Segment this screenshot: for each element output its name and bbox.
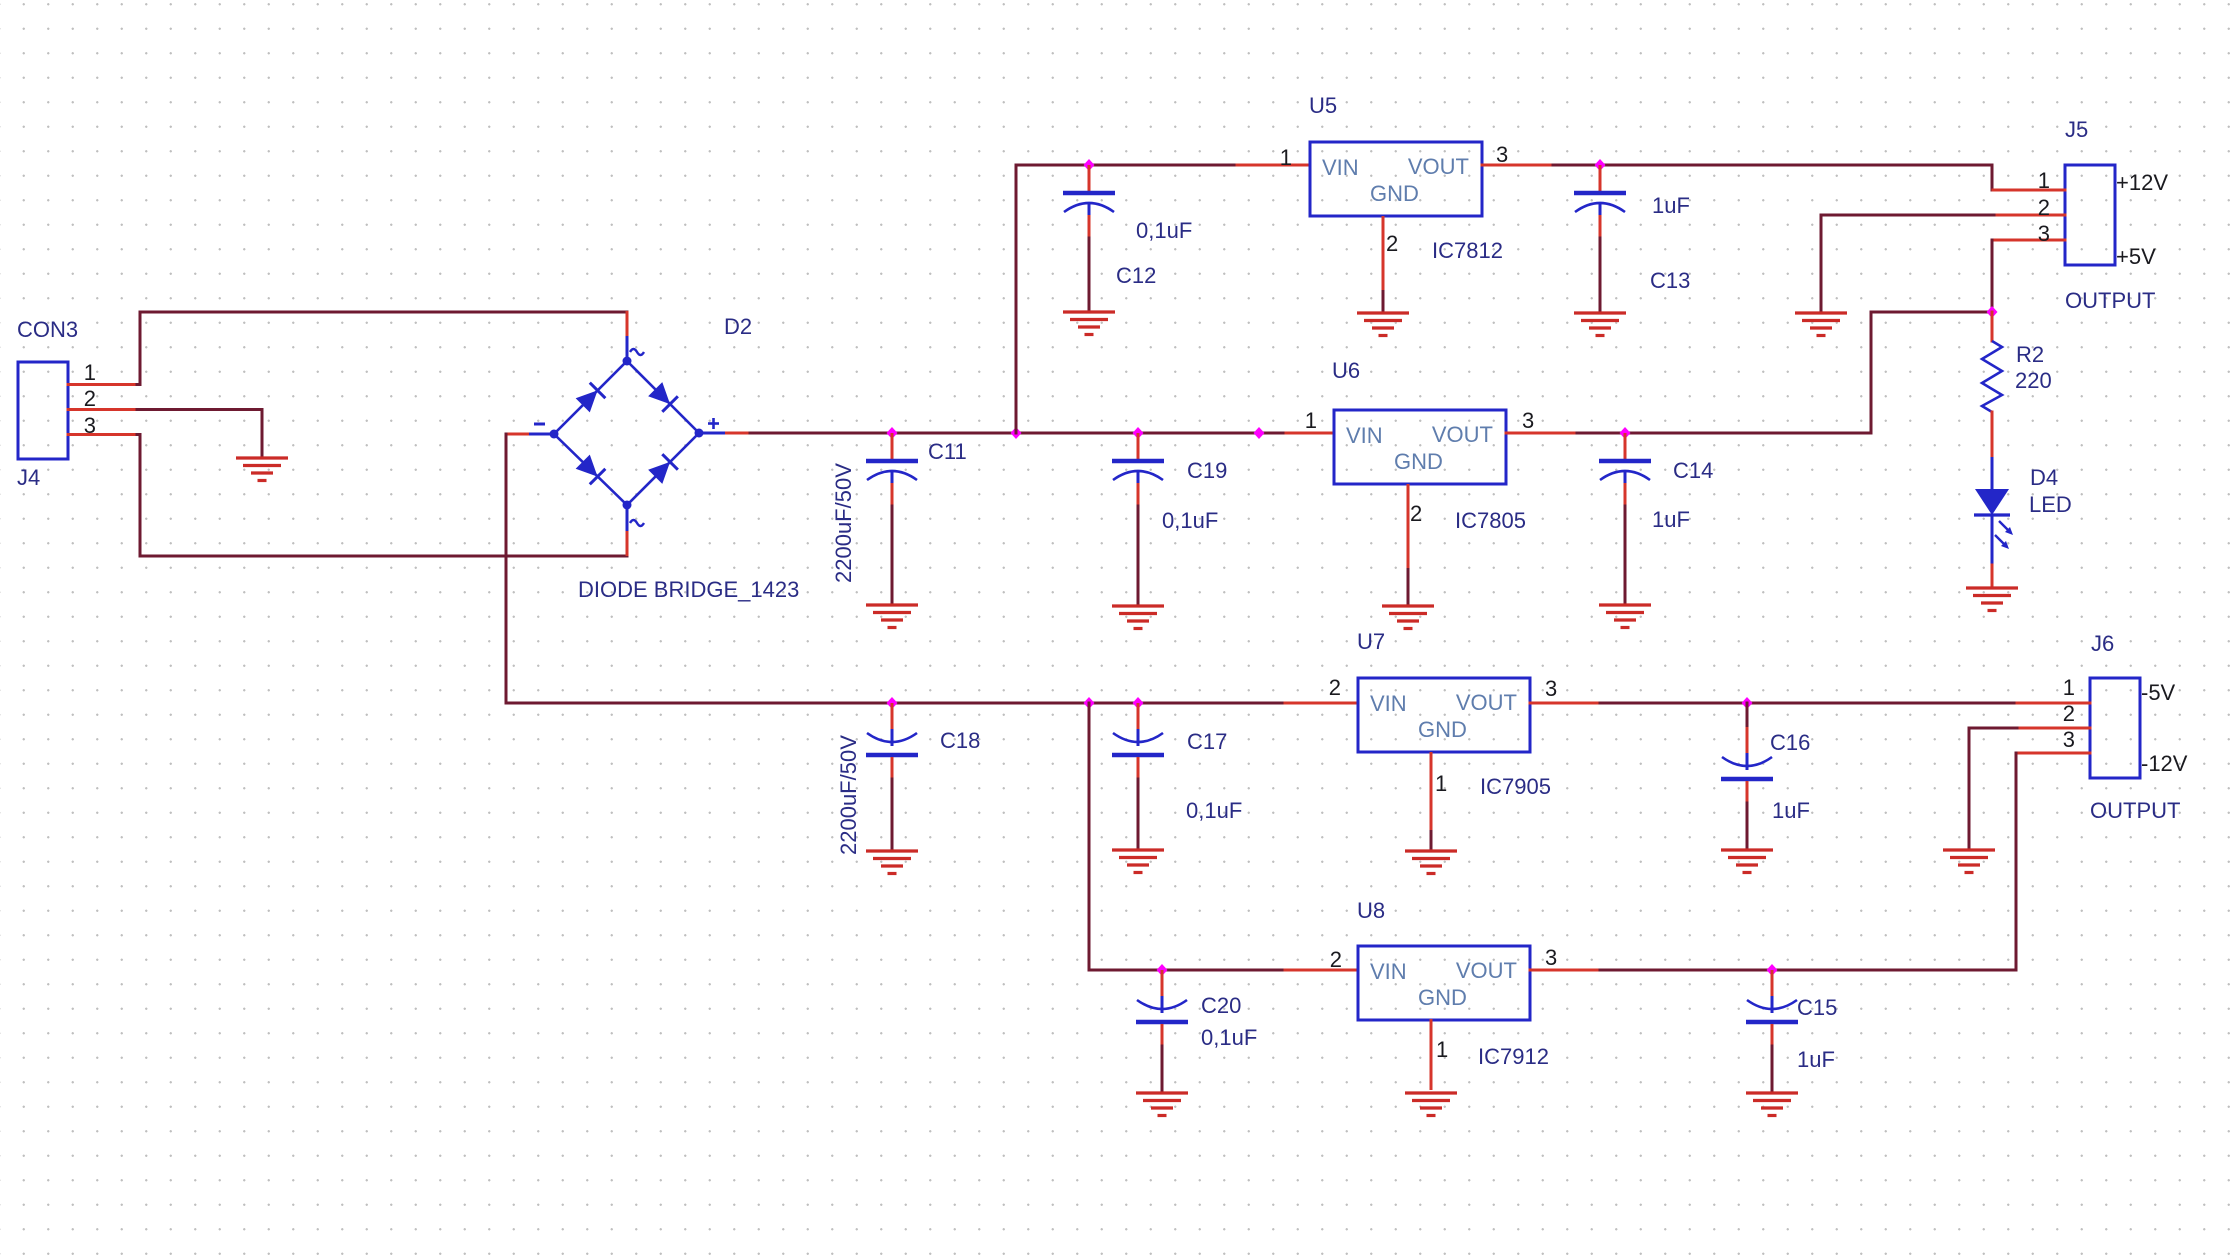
resistor R2: [1982, 341, 2002, 412]
wire C19 to ground: [1137, 506, 1140, 605]
regulator U8: [1358, 946, 1530, 1020]
pin 1 of J5: [1993, 189, 2065, 192]
capacitor C19: [1112, 433, 1164, 506]
svg-text:C14: C14: [1673, 458, 1713, 483]
pin 2 stub U5: [1382, 216, 1385, 312]
diode D2a (upper-left): [575, 383, 605, 413]
svg-text:GND: GND: [1370, 181, 1419, 206]
svg-text:J6: J6: [2091, 631, 2114, 656]
junction positive rail branch: [1011, 427, 1022, 439]
junction positive rail: [1254, 427, 1265, 439]
svg-text:0,1uF: 0,1uF: [1136, 218, 1192, 243]
bridge minus mark: [534, 423, 545, 426]
wire C15 to ground: [1771, 1046, 1774, 1092]
svg-text:C11: C11: [928, 439, 967, 464]
svg-text:U5: U5: [1309, 93, 1337, 118]
regulator U7: [1358, 678, 1530, 752]
svg-text:R2: R2: [2016, 342, 2044, 367]
svg-text:IC7805: IC7805: [1455, 508, 1526, 533]
svg-text:1: 1: [1436, 1037, 1448, 1062]
svg-text:3: 3: [84, 413, 96, 438]
ground (C16): [1721, 850, 1773, 873]
pin 3 stub U7: [1530, 702, 1600, 705]
svg-text:2: 2: [2038, 195, 2050, 220]
svg-text:3: 3: [1545, 945, 1557, 970]
pin 1 of J6: [2017, 702, 2090, 705]
wire J5 pin3 to node: [1991, 240, 1994, 312]
pin 3 stub U5: [1482, 164, 1553, 167]
wire C11 to ground: [891, 506, 894, 604]
svg-text:-12V: -12V: [2141, 751, 2188, 776]
capacitor C14: [1599, 433, 1651, 506]
ground (C18): [866, 851, 918, 874]
svg-text:1: 1: [84, 360, 96, 385]
svg-text:DIODE BRIDGE_1423: DIODE BRIDGE_1423: [578, 577, 799, 602]
svg-text:3: 3: [2038, 221, 2050, 246]
wire negative rail: [506, 702, 1285, 705]
LED D4: [1974, 457, 2013, 565]
wire C17 to ground: [1137, 779, 1140, 849]
svg-text:IC7812: IC7812: [1432, 238, 1503, 263]
ground (C12): [1063, 312, 1115, 335]
svg-text:2: 2: [1329, 675, 1341, 700]
junction C17: [1133, 697, 1144, 709]
bridge tilde mark top: [630, 349, 644, 355]
wire positive rail: [750, 432, 1286, 435]
pin 3 of J4: [68, 433, 137, 436]
svg-text:D2: D2: [724, 314, 752, 339]
svg-text:LED: LED: [2029, 492, 2072, 517]
capacitor C15: [1746, 970, 1798, 1046]
wire J4 pin1 to bridge top: [137, 312, 627, 385]
svg-text:1: 1: [2038, 168, 2050, 193]
svg-text:VOUT: VOUT: [1456, 958, 1517, 983]
svg-text:VOUT: VOUT: [1456, 690, 1517, 715]
junction C19: [1133, 427, 1144, 439]
junction negative rail branch: [1084, 697, 1095, 709]
svg-text:IC7905: IC7905: [1480, 774, 1551, 799]
bridge tilde mark bottom: [630, 520, 644, 526]
svg-text:2: 2: [2063, 701, 2075, 726]
pin 2 of J6: [2017, 727, 2090, 730]
svg-text:IC7912: IC7912: [1478, 1044, 1549, 1069]
wire U5 output to J5 pin1: [1553, 165, 1992, 190]
pin 2 of J4: [68, 408, 137, 411]
junction C20: [1157, 964, 1168, 976]
svg-text:2: 2: [1410, 501, 1422, 526]
wire C14 to ground: [1624, 506, 1627, 604]
svg-text:3: 3: [1522, 408, 1534, 433]
junction C13: [1595, 159, 1606, 171]
svg-text:U8: U8: [1357, 898, 1385, 923]
ground (J6 pin2): [1943, 850, 1995, 873]
wire C13 to ground: [1599, 238, 1602, 312]
svg-text:+12V: +12V: [2116, 170, 2168, 195]
svg-text:C13: C13: [1650, 268, 1690, 293]
svg-text:VIN: VIN: [1322, 155, 1359, 180]
svg-text:OUTPUT: OUTPUT: [2065, 288, 2155, 313]
ground (U5 pin2): [1357, 313, 1409, 336]
ground (C17): [1112, 850, 1164, 873]
pin 1 stub U7: [1430, 752, 1433, 850]
svg-text:VIN: VIN: [1346, 423, 1383, 448]
svg-text:1: 1: [1435, 771, 1447, 796]
pin 1 stub U6: [1286, 432, 1334, 435]
capacitor C20: [1136, 970, 1188, 1046]
svg-text:3: 3: [2063, 727, 2075, 752]
capacitor C16: [1721, 727, 1773, 803]
svg-text:0,1uF: 0,1uF: [1201, 1025, 1257, 1050]
wire positive rail up to U5: [1016, 165, 1237, 433]
svg-text:1: 1: [1280, 145, 1292, 170]
svg-text:2200uF/50V: 2200uF/50V: [836, 735, 861, 855]
connector J5: [2065, 165, 2115, 265]
pin 2 stub U6: [1407, 484, 1410, 605]
svg-text:2: 2: [84, 386, 96, 411]
svg-text:2: 2: [1386, 231, 1398, 256]
junction C12: [1084, 159, 1095, 171]
svg-text:C18: C18: [940, 728, 980, 753]
pin 3 stub U8: [1530, 969, 1600, 972]
ground (C11): [866, 605, 918, 628]
svg-text:C20: C20: [1201, 993, 1241, 1018]
svg-text:GND: GND: [1418, 717, 1467, 742]
svg-text:1uF: 1uF: [1772, 798, 1810, 823]
diode D2c (lower-left): [575, 454, 605, 484]
capacitor C11: [866, 433, 918, 506]
svg-text:1uF: 1uF: [1652, 193, 1690, 218]
pin 2 of J5: [1994, 214, 2065, 217]
ground (J5 pin2): [1795, 313, 1847, 336]
wire to J5 pin2: [1821, 214, 1994, 217]
ground (D4): [1966, 588, 2018, 611]
ground (U7 pin1): [1405, 851, 1457, 874]
ground (C15): [1746, 1093, 1798, 1116]
diode D2d (lower-right): [647, 454, 677, 484]
svg-text:3: 3: [1545, 676, 1557, 701]
junction C15: [1767, 964, 1778, 976]
svg-text:VIN: VIN: [1370, 959, 1407, 984]
svg-text:220: 220: [2015, 368, 2052, 393]
svg-text:C12: C12: [1116, 263, 1156, 288]
connector J6: [2090, 678, 2140, 778]
svg-text:+5V: +5V: [2116, 244, 2156, 269]
bridge minus pin (left): [505, 433, 554, 436]
svg-text:1: 1: [1305, 408, 1317, 433]
svg-text:2: 2: [1330, 947, 1342, 972]
diode D2b (upper-right): [647, 381, 677, 411]
connector J4 (CON3): [18, 362, 68, 459]
wire J4 pin3 to bridge bottom: [137, 435, 627, 557]
junction C18: [887, 697, 898, 709]
bridge AC pin (bottom): [626, 505, 629, 556]
wire U8 output to J6 pin3: [1600, 969, 2016, 972]
wire U7 output to J6 pin1: [1600, 702, 2017, 705]
svg-text:VOUT: VOUT: [1432, 422, 1493, 447]
capacitor C12: [1063, 165, 1115, 238]
pin stub D4 bottom: [1991, 565, 1994, 587]
pin 1 of J4: [68, 383, 137, 386]
regulator U5: [1310, 142, 1482, 216]
svg-text:C16: C16: [1770, 730, 1810, 755]
ground (U6 pin2): [1382, 606, 1434, 629]
svg-text:-5V: -5V: [2141, 680, 2176, 705]
svg-text:C15: C15: [1797, 995, 1837, 1020]
svg-text:1uF: 1uF: [1652, 507, 1690, 532]
ground (J4 pin2): [236, 458, 288, 481]
wire R2 to D4: [1991, 412, 1994, 457]
ground (C20): [1136, 1093, 1188, 1116]
junction R2 node: [1987, 306, 1998, 318]
svg-text:VOUT: VOUT: [1408, 154, 1469, 179]
bridge plus mark: [708, 418, 719, 429]
svg-text:1: 1: [2063, 675, 2075, 700]
pin 2 stub U8: [1285, 969, 1358, 972]
svg-text:D4: D4: [2030, 465, 2058, 490]
pin 3 stub U6: [1506, 432, 1577, 435]
wire to J6 pin2: [1969, 727, 2017, 730]
svg-text:0,1uF: 0,1uF: [1162, 508, 1218, 533]
svg-text:3: 3: [1496, 142, 1508, 167]
svg-text:OUTPUT: OUTPUT: [2090, 798, 2180, 823]
wire J5 pin2 to ground: [1820, 215, 1823, 312]
wire U6 output to J5 pin3 node: [1577, 312, 1992, 433]
wire C18 to ground: [891, 779, 894, 850]
svg-text:GND: GND: [1394, 449, 1443, 474]
wire J6 pin3 to U8 output: [2015, 753, 2018, 970]
pin 2 stub U7: [1285, 702, 1358, 705]
junction C11: [887, 427, 898, 439]
wire negative rail down to U8: [1089, 703, 1285, 970]
svg-text:CON3: CON3: [17, 317, 78, 342]
ground (C14): [1599, 605, 1651, 628]
bridge vertex dots: [550, 357, 704, 510]
bridge AC pin (top): [626, 311, 629, 361]
diode bridge D2: [554, 361, 699, 505]
svg-text:VIN: VIN: [1370, 691, 1407, 716]
capacitor C13: [1574, 165, 1626, 238]
pin 3 of J6: [2016, 752, 2090, 755]
wire C16 to ground: [1746, 803, 1749, 849]
svg-text:J5: J5: [2065, 117, 2088, 142]
wire J4 pin2 to ground: [137, 410, 262, 458]
svg-text:J4: J4: [17, 465, 40, 490]
pin 1 stub U5: [1237, 164, 1310, 167]
regulator U6: [1334, 410, 1506, 484]
svg-text:1uF: 1uF: [1797, 1047, 1835, 1072]
ground (C13): [1574, 313, 1626, 336]
svg-text:U6: U6: [1332, 358, 1360, 383]
pin 3 of J5: [1993, 239, 2065, 242]
wire C20 to ground: [1161, 1046, 1164, 1092]
bridge plus pin (right): [699, 432, 750, 435]
wire C12 to ground: [1088, 238, 1091, 311]
junction C14: [1620, 427, 1631, 439]
wire bridge minus to negative rail: [505, 434, 508, 703]
pin stub R2 top: [1991, 312, 1994, 341]
svg-text:C19: C19: [1187, 458, 1227, 483]
pin 1 stub U8: [1430, 1019, 1433, 1090]
wire stub C16: [1746, 703, 1749, 727]
ground (C19): [1112, 606, 1164, 629]
capacitor C17: [1112, 703, 1164, 779]
wire J6 pin2 to ground: [1968, 728, 1971, 849]
capacitor C18: [866, 703, 918, 779]
junction C16: [1742, 697, 1753, 709]
ground (U8 pin1): [1405, 1093, 1457, 1116]
svg-text:C17: C17: [1187, 729, 1227, 754]
svg-text:U7: U7: [1357, 629, 1385, 654]
svg-text:0,1uF: 0,1uF: [1186, 798, 1242, 823]
svg-text:GND: GND: [1418, 985, 1467, 1010]
svg-text:2200uF/50V: 2200uF/50V: [831, 463, 856, 583]
